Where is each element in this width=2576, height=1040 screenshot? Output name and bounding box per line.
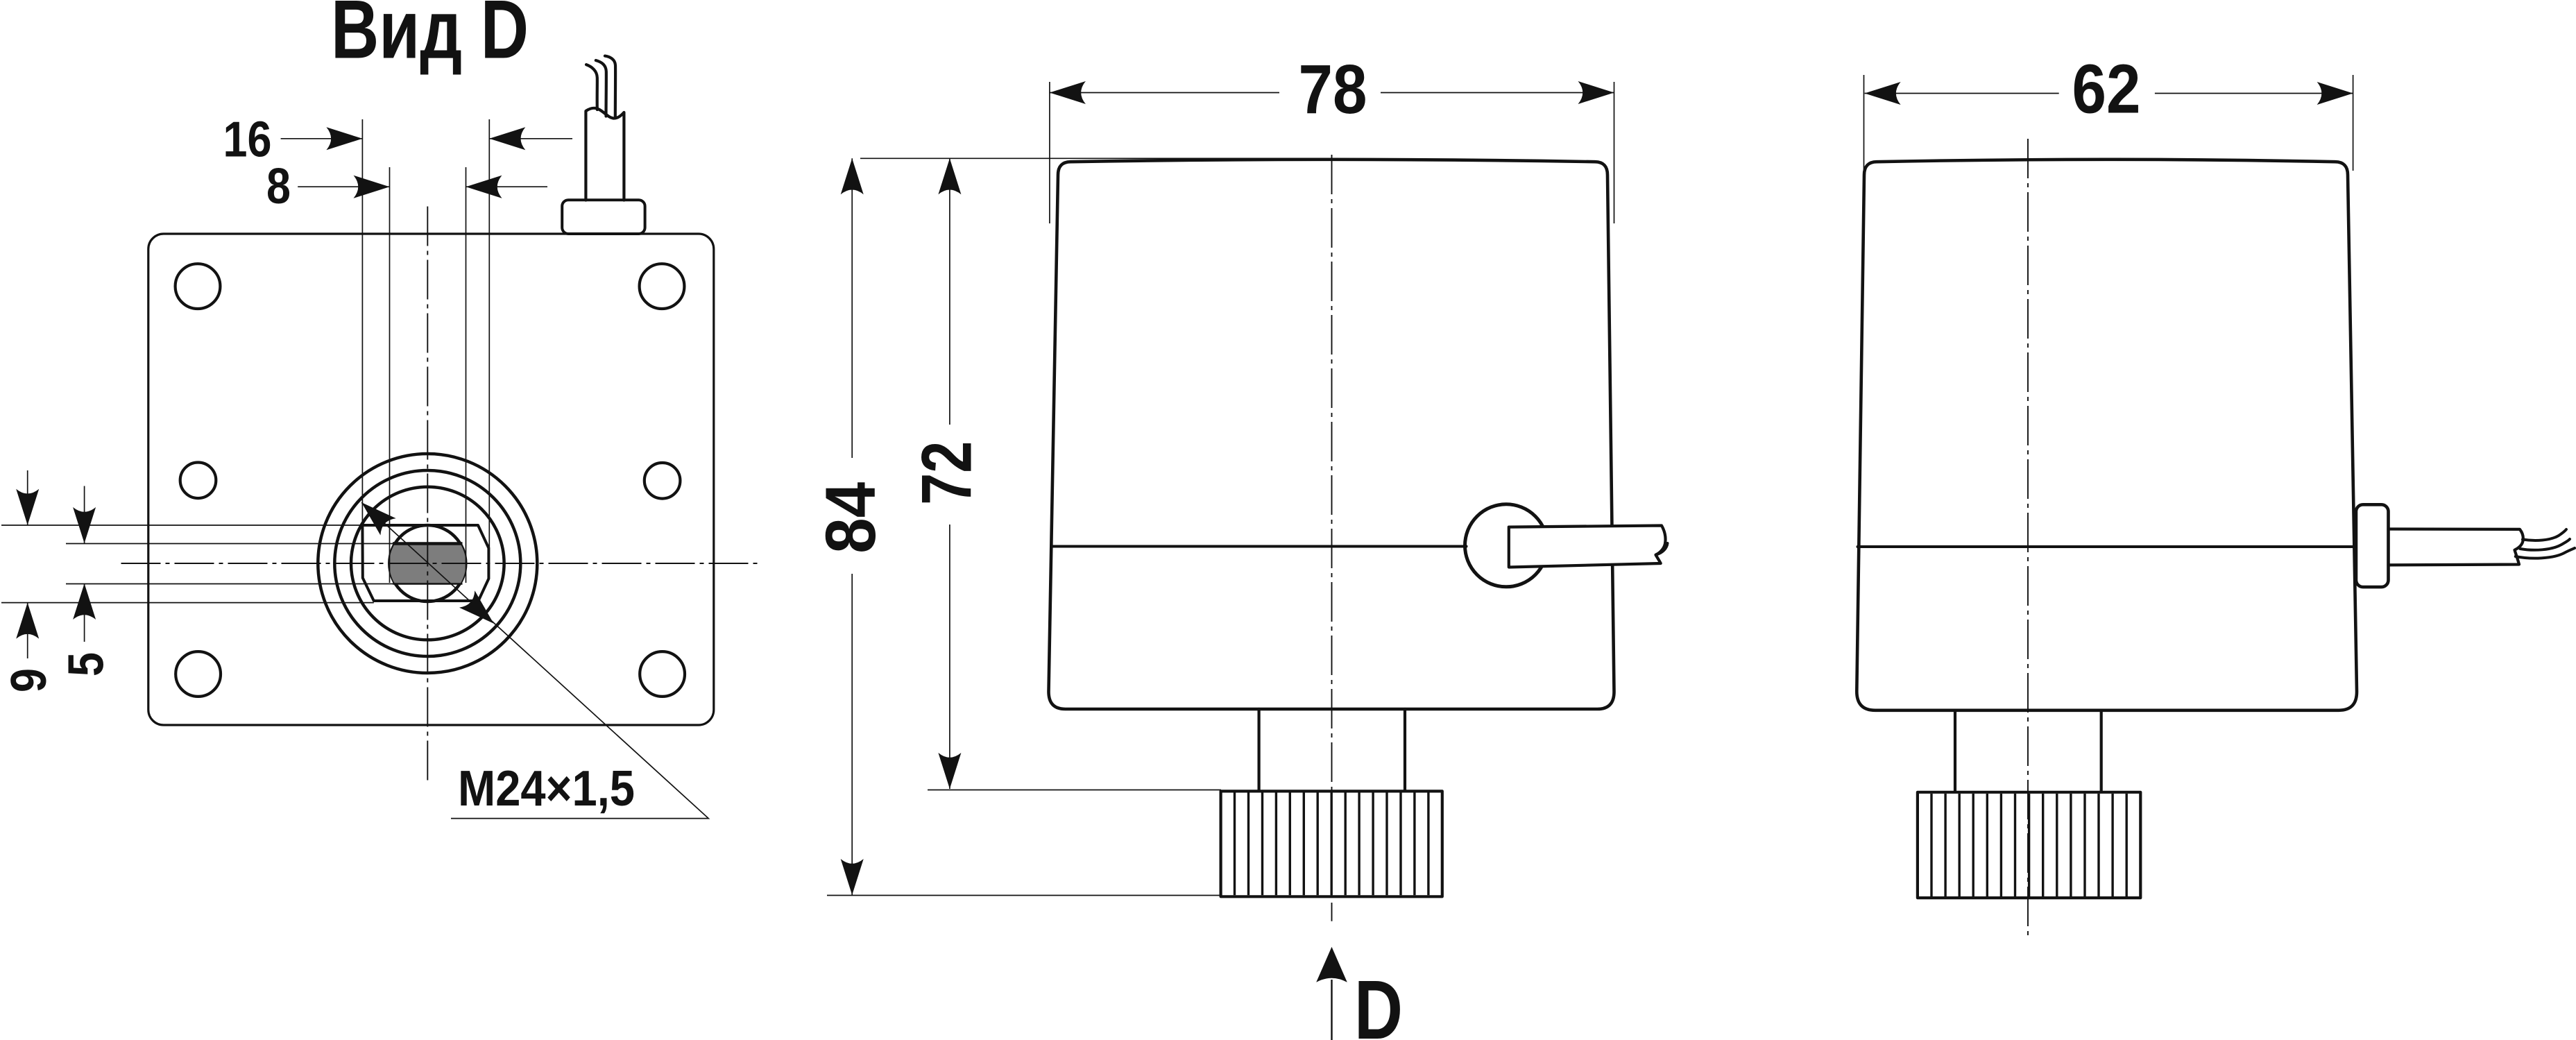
body parting line: [1051, 545, 1466, 548]
leader line M24x1,5: [361, 502, 708, 818]
svg-text:9: 9: [1, 668, 57, 692]
centerline (middle view): [1331, 155, 1333, 921]
shaft circle: [389, 525, 466, 602]
dimension 62 line: [1865, 93, 2059, 94]
horizontal centerline: [121, 563, 758, 564]
cable jacket: [586, 108, 624, 201]
dimension 84 line: [851, 158, 853, 458]
svg-text:D: D: [1354, 962, 1403, 1040]
actuator body (side): [1857, 160, 2357, 710]
extension line 16 right: [488, 119, 490, 548]
extension line 62 left: [1863, 75, 1865, 171]
extension line 8 left: [389, 167, 391, 583]
knurl hatch: [1235, 793, 1428, 896]
svg-text:72: 72: [907, 441, 987, 505]
centerline (side view): [2027, 139, 2029, 940]
svg-text:8: 8: [266, 158, 291, 214]
extension line heights top: [860, 157, 1322, 159]
dimension 8 line: [298, 186, 389, 187]
mounting hole top-left: [176, 264, 221, 309]
flange plate outline: [148, 234, 714, 725]
cable with break: [2389, 529, 2523, 565]
mounting hole mid-left: [180, 463, 216, 499]
boss thread circle M24: [334, 470, 520, 656]
vertical centerline: [427, 207, 428, 783]
neck left (side): [1954, 710, 1956, 792]
side wire 2: [2520, 539, 2570, 550]
knurled knob: [1221, 791, 1442, 896]
parting line (side): [1858, 545, 2357, 548]
extension line flat top: [66, 543, 395, 545]
cable gland (top of flange): [562, 200, 645, 234]
knurl hatch (side): [1931, 794, 2126, 896]
gray shaft flat (filled): [389, 544, 466, 584]
side wire 1: [2523, 529, 2566, 540]
extension line 8 right: [466, 167, 467, 583]
svg-text:M24×1,5: M24×1,5: [458, 760, 635, 817]
svg-text:78: 78: [1299, 51, 1367, 128]
shaft break curl: [1657, 543, 1668, 554]
extension line hex top: [1, 525, 362, 526]
boss inner circle: [351, 487, 504, 640]
wire 3: [605, 56, 615, 118]
svg-text:62: 62: [2072, 51, 2141, 128]
hex socket outline: [362, 525, 488, 601]
boss outer circle: [318, 454, 537, 673]
svg-text:Вид D: Вид D: [331, 0, 529, 76]
cable gland (side): [2356, 504, 2389, 587]
actuator body: [1049, 160, 1614, 709]
mounting hole bottom-right: [640, 651, 685, 697]
dimension 72 line: [949, 158, 950, 425]
dimension 16 line: [281, 138, 363, 139]
knurled knob (side): [1918, 792, 2140, 898]
extension line 78 left: [1049, 82, 1050, 223]
extension line hex bottom: [1, 602, 374, 604]
svg-text:5: 5: [58, 652, 114, 676]
manual override knob circle: [1465, 504, 1548, 587]
shaft flat bottom edge: [393, 583, 463, 585]
side wire 3: [2516, 548, 2575, 559]
mounting hole bottom-left: [176, 651, 221, 697]
extension line 16 left: [361, 119, 363, 525]
wire 1: [586, 65, 597, 110]
override shaft with break: [1509, 526, 1666, 568]
wire 2: [596, 60, 606, 117]
mounting hole mid-right: [645, 463, 681, 499]
svg-text:84: 84: [811, 481, 890, 553]
neck left line: [1257, 709, 1260, 791]
dimension 9 line: [27, 470, 28, 525]
extension line flat bottom: [66, 583, 395, 585]
extension line 72 bottom: [928, 790, 1221, 791]
mounting hole top-right: [640, 264, 685, 309]
neck right line: [1404, 709, 1406, 791]
shaft flat top edge: [393, 542, 463, 545]
neck right (side): [2100, 710, 2103, 792]
extension line 84 bottom: [827, 895, 1221, 896]
dimension 78 line: [1050, 92, 1279, 94]
view arrow D line: [1331, 980, 1332, 1040]
svg-text:16: 16: [223, 111, 272, 167]
dimension 5 line: [84, 486, 85, 544]
extension line 78 right: [1614, 82, 1615, 223]
extension line 62 right: [2353, 75, 2354, 171]
